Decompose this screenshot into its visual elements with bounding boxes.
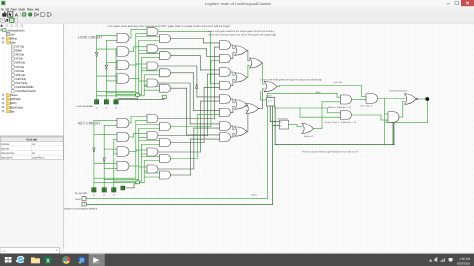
svg-text:li nks: li nks <box>1 250 7 253</box>
svg-text:Circuit Name: Circuit Name <box>1 143 10 146</box>
svg-text:3/5 input AND (Reset Counter): 3/5 input AND (Reset Counter) <box>389 89 407 92</box>
svg-text:(Lock = Key) x D: (Lock = Key) x D <box>360 105 372 108</box>
svg-text:Key Input Bits: Key Input Bits <box>75 192 88 195</box>
svg-text:6/20/2016: 6/20/2016 <box>457 261 470 265</box>
svg-text:if the lock and key match one: if the lock and key match one of the AND… <box>209 33 277 36</box>
svg-text:For each wire and key the conn: For each wire and key the connected NOT … <box>108 25 231 28</box>
svg-text:File: File <box>1 7 4 11</box>
svg-text:Button x (Attempt <= 3): Button x (Attempt <= 3) <box>328 106 351 109</box>
svg-text:Base: Base <box>10 109 14 113</box>
svg-text:Simulate: Simulate <box>18 7 25 11</box>
svg-text:Project: Project <box>11 7 17 11</box>
svg-text:Counter: Counter <box>266 95 272 98</box>
svg-text:Button: Button <box>76 198 82 201</box>
svg-text:Window: Window <box>27 7 34 11</box>
svg-text:Lock = Key: Lock = Key <box>333 81 342 84</box>
svg-text:X: X <box>46 258 50 264</box>
svg-text:Logisim: main of LockKeypadCou: Logisim: main of LockKeypadCounter <box>205 2 272 6</box>
svg-text:Memory Comparator: Memory Comparator <box>277 118 288 121</box>
svg-text:Number of Incorrect Attempts (: Number of Incorrect Attempts (Resets 0) <box>64 208 97 211</box>
svg-text:Attempt +1: Attempt +1 <box>304 135 314 138</box>
svg-text:Shared Label Font: Shared Label Font <box>1 156 13 159</box>
svg-text:Controlled Inverter: Controlled Inverter <box>16 89 36 93</box>
svg-text:Reset Counter When Light Switc: Reset Counter When Light Switches from 0… <box>302 150 358 153</box>
svg-text:Help: Help <box>35 7 39 11</box>
svg-text:if one of the AND gates are hi: if one of the AND gates are high the out… <box>260 79 323 82</box>
svg-text:LOCK CIRCUIT: LOCK CIRCUIT <box>78 36 103 40</box>
svg-text:East: East <box>32 152 35 155</box>
svg-text:Button: Button <box>252 193 258 196</box>
svg-text:LockKeypadCounter: LockKeypadCounter <box>6 28 24 32</box>
svg-text:Lock Input Bits: Lock Input Bits <box>76 105 94 108</box>
svg-text:4:05 PM: 4:05 PM <box>460 257 471 261</box>
svg-text:main: main <box>32 143 35 146</box>
svg-text:SansSerif Plain 12: SansSerif Plain 12 <box>32 156 45 159</box>
svg-text:Edit: Edit <box>6 7 10 11</box>
svg-text:(Lock = Key) x ->(Attempt <= 3: (Lock = Key) x ->(Attempt <= 3) <box>325 121 357 124</box>
svg-text:Shared Label Facing: Shared Label Facing <box>1 152 14 155</box>
svg-text:KEY CIRCUIT: KEY CIRCUIT <box>78 121 101 125</box>
svg-text:Button: Button <box>315 91 321 94</box>
svg-text:Shared Label: Shared Label <box>1 147 9 150</box>
svg-text:Circuit: main: Circuit: main <box>26 138 37 142</box>
